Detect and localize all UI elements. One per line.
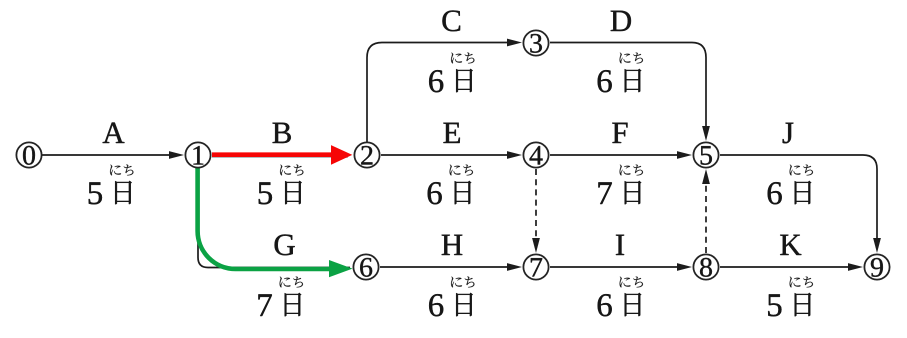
node 1: [185, 142, 210, 167]
node 9: [864, 254, 889, 279]
duration label J: 6 day(s): [768, 165, 813, 205]
activity label J: [783, 123, 794, 144]
node 3: [523, 30, 548, 55]
node 8: [693, 254, 718, 279]
wire E: node2 to node4: [381, 151, 522, 159]
activity label D: [611, 11, 631, 31]
activity label K: [780, 235, 801, 255]
activity label H: [442, 235, 463, 255]
critical path arrow B (red): node1 to node2: [212, 145, 352, 165]
activity label F: [612, 123, 627, 143]
duration label K: 5 day(s): [768, 277, 813, 317]
activity label E: [443, 123, 459, 143]
wire H: node6 to node7: [380, 263, 522, 271]
node 5: [693, 142, 718, 167]
dummy arrow (dashed): node8 up to node5: [702, 169, 710, 253]
wire J: node5 right then down to node9: [720, 155, 881, 253]
duration label A: 5 day(s): [89, 165, 134, 205]
activity label B: [273, 123, 291, 143]
critical path arrow G (green): node1 to node6: [198, 167, 353, 277]
activity label I: [616, 235, 624, 255]
wire B underlay: node1 to node2: [212, 157, 348, 159]
node 2: [354, 142, 379, 167]
duration label G: 7 day(s): [258, 277, 302, 317]
node 6: [353, 254, 378, 279]
wire D: node3 right then down to node5: [550, 43, 710, 142]
node 0: [16, 142, 41, 167]
duration label I: 6 day(s): [598, 277, 643, 317]
wire F: node4 to node5: [550, 151, 692, 159]
wire K: node8 to node9: [720, 263, 863, 271]
dummy arrow (dashed): node4 down to node7: [532, 169, 540, 253]
activity label A: [103, 123, 125, 143]
wire G underlay (black): node1 down then right to node6: [198, 168, 350, 268]
wire A: node0 to node1: [42, 151, 184, 159]
duration label B: 5 day(s): [259, 165, 304, 205]
duration label C: 6 day(s): [429, 53, 474, 93]
activity label G: [275, 234, 295, 255]
duration label E: 6 day(s): [428, 165, 473, 205]
duration label H: 6 day(s): [429, 277, 474, 317]
duration label D: 6 day(s): [598, 53, 643, 93]
wire C: node2 up then right to node3: [367, 39, 522, 142]
wire I: node7 to node8: [550, 263, 692, 271]
node 4: [523, 142, 548, 167]
node 7: [523, 254, 548, 279]
activity label C: [442, 10, 460, 31]
duration label F: 7 day(s): [598, 165, 642, 205]
